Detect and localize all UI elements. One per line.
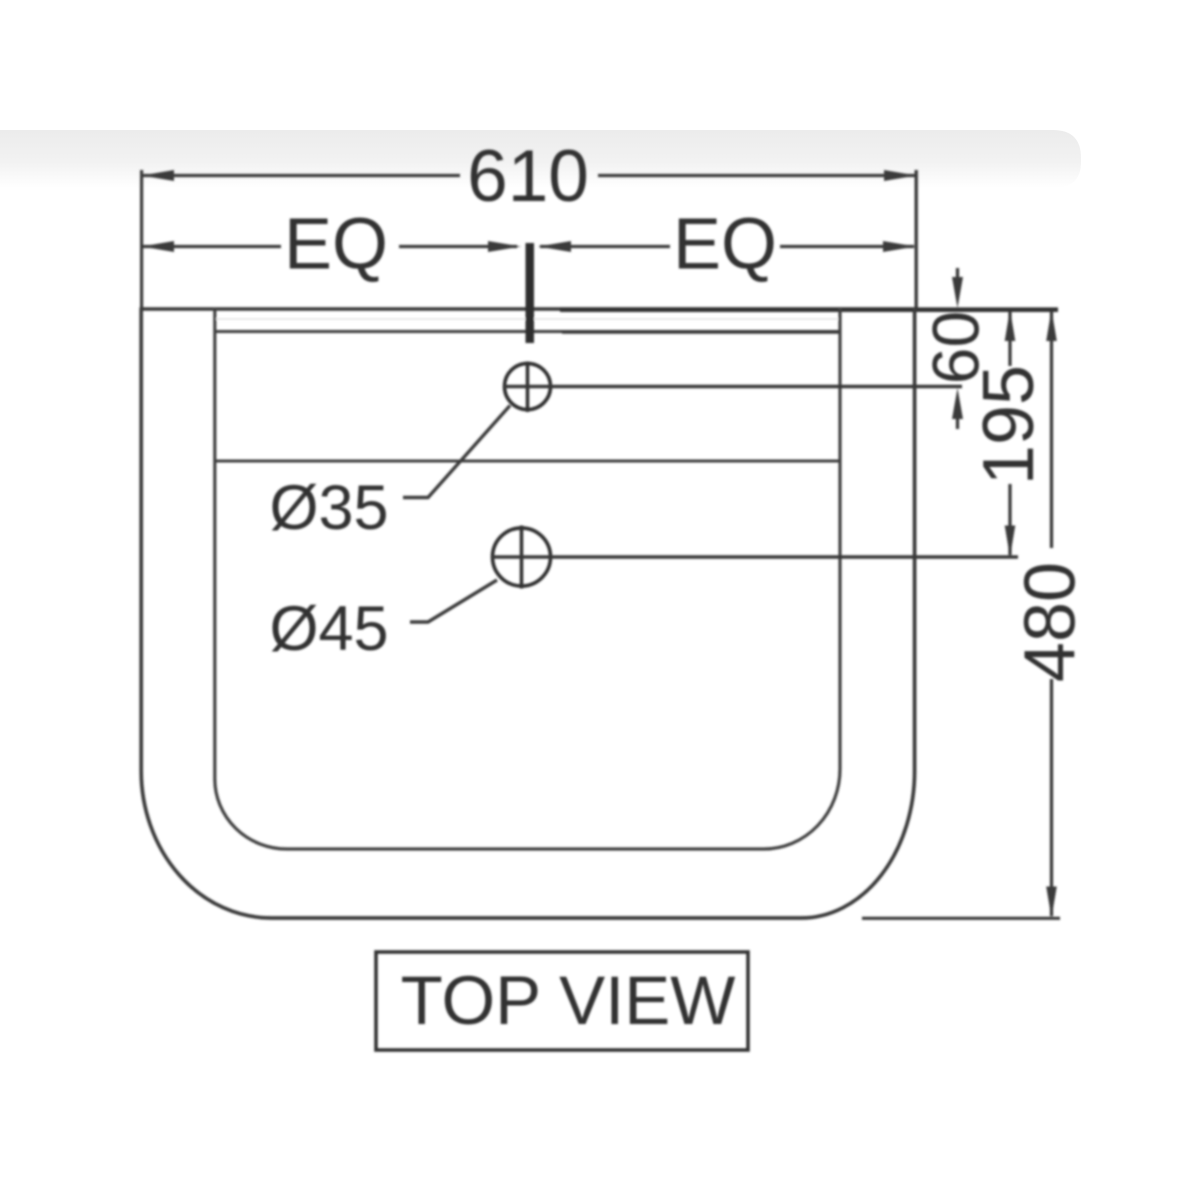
dimension EQ left line: [143, 245, 517, 248]
svg-text:195: 195: [969, 365, 1049, 485]
extension line right: [915, 170, 918, 308]
dimension EQ right line: [540, 245, 914, 248]
svg-text:Ø45: Ø45: [270, 594, 389, 664]
dimension 480: [1011, 310, 1091, 919]
hole 1 (Ø35) symbol: [505, 364, 551, 410]
bottom datum extension line: [862, 917, 1060, 920]
arrow EQ right inner: [538, 241, 571, 252]
svg-text:EQ: EQ: [284, 205, 388, 285]
leader line Ø45: [410, 580, 497, 622]
shelf line: [216, 459, 839, 462]
extension line left: [140, 170, 143, 308]
TOP VIEW title box: [376, 952, 748, 1050]
arrow 610 left: [142, 170, 175, 181]
basin outer outline: [141, 308, 914, 918]
top datum extension line: [560, 307, 1058, 312]
center tick mark: [526, 243, 535, 343]
dimension 195: [969, 310, 1049, 558]
arrow EQ left inner: [488, 241, 521, 252]
faint rim line: [216, 318, 838, 320]
svg-text:610: 610: [467, 136, 589, 217]
hole 1 centerline / 60 datum extension: [504, 385, 962, 389]
arrow 610 right: [884, 170, 917, 181]
dimension 610 line: [143, 174, 915, 177]
dimension 60: [919, 268, 993, 429]
basin inner outline: [215, 308, 840, 849]
leader line Ø35: [403, 406, 510, 498]
rear deck line: [216, 330, 839, 333]
arrow EQ right outer: [883, 241, 916, 252]
basin top edge: [140, 307, 917, 310]
hole 2 (Ø45) symbol: [493, 528, 551, 586]
scan artifact gray band: [0, 130, 1081, 188]
svg-text:480: 480: [1011, 562, 1091, 682]
hole 2 centerline / 195 datum extension: [492, 555, 1018, 559]
arrow EQ left outer: [142, 241, 175, 252]
svg-text:TOP VIEW: TOP VIEW: [401, 962, 736, 1039]
svg-text:Ø35: Ø35: [270, 473, 389, 543]
svg-text:EQ: EQ: [673, 205, 777, 285]
